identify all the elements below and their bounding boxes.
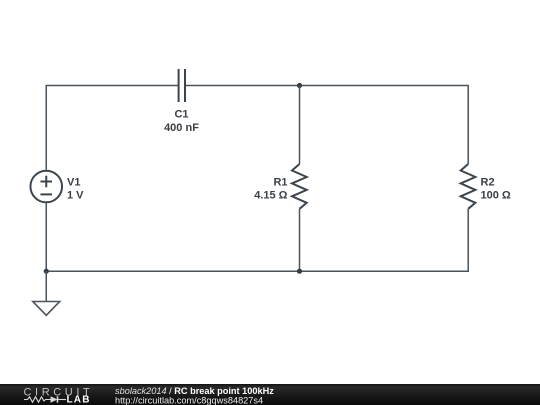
svg-text:C1: C1 (174, 109, 188, 121)
svg-text:R2: R2 (481, 177, 495, 189)
label R2 (481, 177, 495, 189)
wire top: V1 top to C1 left plate (46, 86, 178, 170)
resistor R2 (461, 164, 476, 209)
footer url line (115, 395, 263, 405)
svg-text:http://circuitlab.com/c8gqws84: http://circuitlab.com/c8gqws84827s4 (115, 395, 263, 405)
node B junction dot (bottom of R1) (297, 269, 302, 274)
svg-text:400 nF: 400 nF (164, 122, 199, 134)
wire: R2 bottom to bottom rail corner (300, 209, 469, 271)
svg-text:4.15 Ω: 4.15 Ω (254, 190, 287, 202)
label R2 value 100 ohm (481, 190, 511, 202)
svg-text:1 V: 1 V (67, 190, 84, 202)
capacitor C1 (179, 69, 185, 102)
wire: node A down to R1 top (299, 86, 301, 165)
svg-text:100 Ω: 100 Ω (481, 190, 511, 202)
wire: V1 bottom to ground node (45, 203, 47, 272)
wire top: node A to R2 top corner (300, 86, 469, 165)
label V1 value 1 V (67, 190, 84, 202)
wire top: C1 right plate to node A (186, 85, 300, 87)
node A junction dot (top of R1) (297, 83, 302, 88)
svg-text:LAB: LAB (67, 395, 91, 405)
wire: bottom rail node B to ground node (46, 270, 299, 272)
label C1 (174, 109, 188, 121)
label C1 value 400 nF (164, 122, 199, 134)
footer title line (115, 386, 274, 396)
ground (33, 271, 60, 315)
label R1 (273, 177, 287, 189)
svg-text:R1: R1 (273, 177, 287, 189)
CircuitLab logo: LAB wordmark (67, 395, 91, 405)
voltage source V1 (30, 171, 62, 203)
svg-text:V1: V1 (67, 177, 80, 189)
CircuitLab logo: CIRCUIT wordmark (24, 386, 94, 398)
resistor R1 (292, 164, 307, 209)
CircuitLab logo: resistor squiggle and diode (24, 396, 66, 402)
ground node junction dot (44, 269, 49, 274)
label V1 (67, 177, 80, 189)
footer bar (0, 384, 540, 405)
label R1 value 4.15 ohm (254, 190, 287, 202)
wire: R1 bottom to bottom rail (299, 209, 301, 271)
